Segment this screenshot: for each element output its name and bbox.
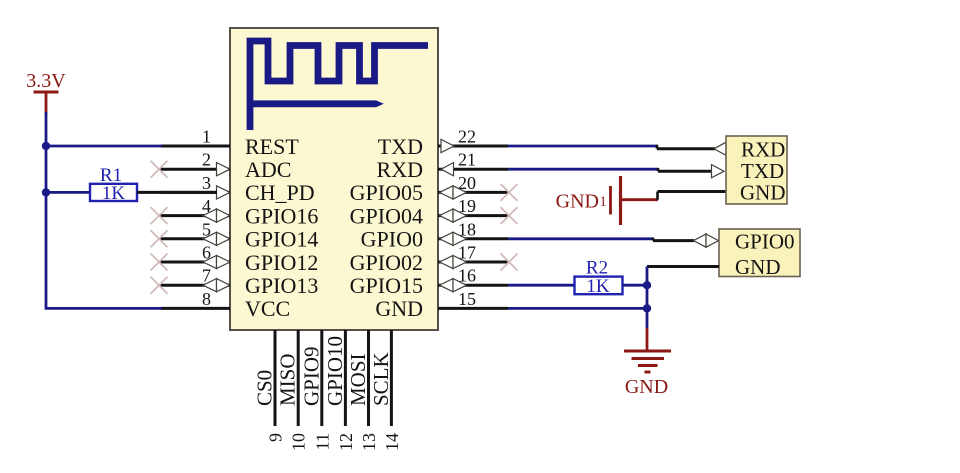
pin 1 REST (left stub, number, name) [161,127,300,159]
svg-text:GPIO05: GPIO05 [350,180,423,205]
svg-text:GPIO10: GPIO10 [323,336,347,406]
svg-text:MOSI: MOSI [346,353,370,406]
wire: pin 22 TXD to header RXD [508,142,726,155]
svg-text:MISO: MISO [276,353,300,406]
svg-text:GPIO12: GPIO12 [245,250,318,275]
svg-text:TXD: TXD [741,159,784,183]
svg-text:ADC: ADC [245,157,291,182]
svg-text:GND: GND [740,180,786,204]
svg-text:GPIO15: GPIO15 [350,273,423,298]
no-connect X on pin 19 [501,207,518,224]
svg-text:9: 9 [266,433,286,442]
svg-text:12: 12 [336,433,356,451]
svg-text:21: 21 [458,150,476,170]
wire: rail to pin 1 REST [45,145,162,148]
no-connect X on pin 17 [501,254,518,271]
pin 16 GPIO15 (right stub, number, name) [350,266,508,298]
pin 22 TXD (right stub, number, name) [378,127,508,159]
wire: rail to pin 8 VCC [45,307,162,310]
svg-text:RXD: RXD [741,137,785,161]
PCB meander antenna graphic [250,41,428,130]
junction node R2/GND rail [643,281,651,289]
power symbol GND1 (bar ground) [556,176,621,225]
svg-text:1K: 1K [102,183,126,204]
svg-text:8: 8 [202,289,211,309]
svg-text:GND: GND [556,191,599,213]
wire: pin 15 GND to node [508,285,648,308]
pin 6 GPIO12 (left stub, number, name) [161,243,319,275]
pin 20 GPIO05 (right stub, number, name) [350,173,508,205]
pin 11 GPIO9 (bottom stub, rotated name and number) [299,330,332,450]
no-connect X on pin 2 [151,161,168,178]
svg-text:GPIO0: GPIO0 [361,227,423,252]
svg-text:GPIO9: GPIO9 [299,346,323,406]
svg-text:13: 13 [359,433,379,451]
svg-text:REST: REST [245,134,299,159]
wire: rail to R1 [45,191,90,194]
svg-text:GPIO13: GPIO13 [245,273,318,298]
pin 14 SCLK (bottom stub, rotated name and number) [369,330,402,451]
no-connect X on pin 4 [151,207,168,224]
svg-text:GPIO0: GPIO0 [735,230,795,254]
pin 17 GPIO02 (right stub, number, name) [350,243,508,275]
svg-text:CS0: CS0 [253,370,277,406]
wire: 3.3V vertical rail [45,112,48,308]
svg-text:GND: GND [625,376,668,398]
wire: pin 16 GPIO15 to R2 [508,284,575,287]
svg-text:TXD: TXD [378,134,423,159]
svg-text:1: 1 [202,127,211,147]
wire: R1 to pin 3 CH_PD [137,191,217,194]
svg-text:GND: GND [375,296,423,321]
svg-text:14: 14 [382,433,402,451]
svg-text:1K: 1K [586,276,610,297]
pin 15 GND (right stub, number, name) [375,289,508,321]
ground symbol GND [624,308,671,398]
svg-text:3: 3 [202,173,211,193]
pin 13 MOSI (bottom stub, rotated name and number) [346,330,379,451]
svg-text:GPIO04: GPIO04 [350,203,423,228]
pin 5 GPIO14 (left stub, number, name) [161,219,319,251]
connector header J2 (GPIO0 GND) [719,229,800,279]
pin 10 MISO (bottom stub, rotated name and number) [276,330,309,451]
svg-text:2: 2 [202,150,211,170]
svg-text:RXD: RXD [377,157,423,182]
pin 7 GPIO13 (left stub, number, name) [161,266,319,298]
pin 2 ADC (left stub, number, name) [161,150,292,182]
svg-text:VCC: VCC [245,296,290,321]
svg-text:3.3V: 3.3V [26,70,66,92]
pin 12 GPIO10 (bottom stub, rotated name and number) [323,330,356,451]
no-connect X on pin 5 [151,230,168,247]
svg-text:15: 15 [458,289,476,309]
svg-text:GPIO16: GPIO16 [245,203,318,228]
wire: pin 18 GPIO0 to header GPIO0 [508,234,719,247]
pin 18 GPIO0 (right stub, number, name) [361,219,508,251]
junction node pin15/ground [643,304,651,312]
svg-text:1: 1 [600,194,607,210]
svg-text:10: 10 [289,433,309,451]
connector header J1 (RXD TXD GND) [726,136,787,204]
no-connect X on pin 7 [151,277,168,294]
resistor R1 1K [90,165,137,204]
svg-text:CH_PD: CH_PD [245,180,315,205]
wire: pin 21 RXD to header TXD [508,165,724,178]
no-connect X on pin 20 [501,184,518,201]
svg-text:11: 11 [312,433,332,450]
junction node rail/pin1 [42,142,50,150]
IC U1 ESP8266 module body [230,28,438,330]
power symbol 3.3V [26,70,66,114]
pin 21 RXD (right stub, number, name) [377,150,508,182]
pin 19 GPIO04 (right stub, number, name) [350,196,508,228]
pin 4 GPIO16 (left stub, number, name) [161,196,319,228]
svg-text:GPIO14: GPIO14 [245,227,318,252]
svg-text:SCLK: SCLK [369,352,393,406]
wire: header GND down to node [647,267,719,286]
junction node rail/R1 [42,188,50,196]
svg-text:GPIO02: GPIO02 [350,250,423,275]
resistor R2 1K [575,258,623,298]
pin 3 CH_PD (left stub, number, name) [161,173,315,205]
svg-text:22: 22 [458,127,476,147]
pin 9 CS0 (bottom stub, rotated name and number) [253,330,286,442]
wire: R2 to GND node [623,284,649,287]
no-connect X on pin 6 [151,254,168,271]
svg-text:GND: GND [735,255,781,279]
wire: GND1 to header GND [621,192,727,200]
pin 8 VCC (left stub, number, name) [161,289,291,321]
